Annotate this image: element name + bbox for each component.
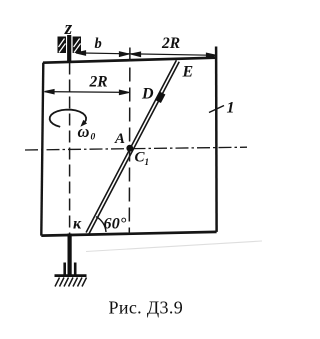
rod channel KE (double line) [86, 60, 179, 234]
top bearing left hatched block [58, 37, 67, 54]
vertical center line (dashed) [128, 48, 131, 234]
60 degree arc [96, 217, 106, 232]
dimension 2R (inner, left half) [45, 90, 130, 95]
leader line for label 1 [209, 106, 224, 113]
shaft bottom [67, 234, 71, 276]
point C1 dot (plate centre) [126, 145, 133, 152]
svg-text:1: 1 [227, 100, 235, 117]
svg-text:к: к [73, 216, 82, 233]
plate 1 (square box) [41, 47, 216, 236]
svg-text:60°: 60° [104, 216, 127, 233]
svg-text:A: A [114, 131, 125, 147]
shaft top (z axis) [67, 35, 71, 63]
svg-text:b: b [95, 36, 102, 52]
axis z dashed line inside plate [69, 63, 71, 235]
svg-text:1: 1 [145, 157, 150, 167]
top bearing right hatched block [73, 37, 81, 54]
horizontal center line (dash-dot) [25, 147, 247, 150]
dimension line b + 2R (top) [76, 51, 216, 58]
svg-text:2R: 2R [161, 35, 180, 52]
svg-text:Рис. Д3.9: Рис. Д3.9 [109, 298, 184, 318]
svg-text:E: E [182, 64, 194, 81]
svg-text:2R: 2R [89, 74, 108, 91]
svg-text:0: 0 [91, 133, 96, 143]
bottom bearing bars [63, 263, 66, 276]
svg-text:ω: ω [78, 122, 90, 141]
ground line [55, 274, 87, 277]
scan artifact faint line [86, 241, 262, 252]
ground hatching [55, 278, 87, 287]
svg-text:D: D [141, 86, 154, 103]
ball D on rod [158, 93, 163, 102]
rotation arrow omega0 (ellipse arc) [50, 110, 86, 127]
svg-text:z: z [64, 18, 73, 39]
